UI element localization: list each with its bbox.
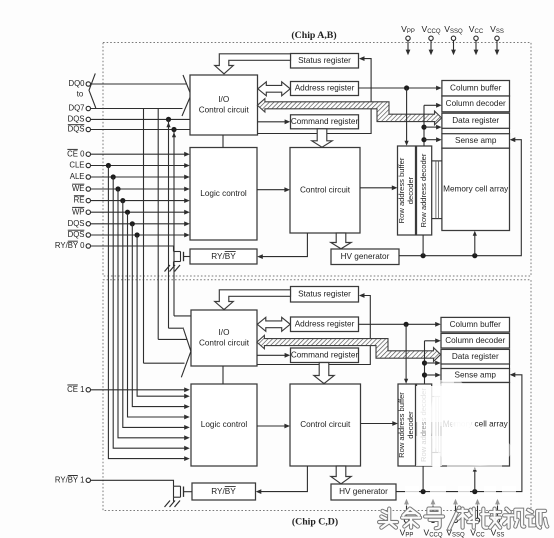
junction data register feed (C,D) xyxy=(422,360,427,365)
block Memory cell array (A,B) xyxy=(442,148,510,230)
block Control circuit (C,D) xyxy=(290,384,361,466)
wire I/O to Logic control (A,B) xyxy=(222,135,224,148)
wire to sense amp (A,B) xyxy=(424,139,439,141)
status ribbon to I/O top (C,D) xyxy=(215,290,291,310)
wire to memory array bottom (C,D) xyxy=(474,468,476,492)
block Status register (C,D) xyxy=(291,287,359,303)
wire Logic control to Control circuit (C,D) xyxy=(257,425,288,427)
svg-text:DQ0: DQ0 xyxy=(68,79,85,88)
block Control circuit (A,B) xyxy=(290,148,360,234)
block Sense amp (C,D) xyxy=(441,369,510,383)
command to control hollow arrow (C,D) xyxy=(314,363,334,384)
status feedback wire (A,B) xyxy=(258,59,372,134)
RY/BY transistor (C,D) xyxy=(174,485,181,487)
wire control drop x=122.8 to Logic control (C,D) xyxy=(123,201,188,428)
svg-text:RY/BY 1: RY/BY 1 xyxy=(55,475,85,484)
svg-text:Status register: Status register xyxy=(298,289,351,298)
ground slashes (A,B) xyxy=(165,265,171,272)
svg-text:decoder: decoder xyxy=(406,411,415,439)
svg-text:Address register: Address register xyxy=(295,84,355,93)
wire WP to Logic control (A,B) xyxy=(91,211,188,213)
wire address to row address buffer (C,D) xyxy=(405,324,407,381)
wire to row decoder bottom (A,B) xyxy=(422,235,424,256)
block Row address decoder (C,D) xyxy=(417,384,432,466)
wire DQS-bar drop to chip C,D xyxy=(173,130,175,316)
wire DQS to Logic control (A,B) xyxy=(91,223,188,225)
svg-text:DQS: DQS xyxy=(68,125,85,134)
svg-text:decoder: decoder xyxy=(406,176,415,204)
svg-text:Status register: Status register xyxy=(298,56,351,65)
HV hollow arrow (C,D) xyxy=(331,466,351,484)
wire Control circuit to RY/BY (C,D) xyxy=(258,466,307,492)
svg-text:Column buffer: Column buffer xyxy=(450,320,502,329)
svg-text:Control circuit: Control circuit xyxy=(199,338,250,347)
block Column buffer (A,B) xyxy=(442,81,510,97)
wire to data register (C,D) xyxy=(425,362,439,364)
svg-text:ALE: ALE xyxy=(70,172,85,181)
chip A,B dashed boundary xyxy=(103,43,531,277)
junction HV-rowdec (C,D) xyxy=(421,489,426,494)
junction HV-array (C,D) xyxy=(472,489,477,494)
watermark white wash xyxy=(398,378,518,506)
wire Control circuit to RY/BY (A,B) xyxy=(260,233,308,257)
block Column decoder (A,B) xyxy=(442,96,510,112)
wire to sense amp (C,D) xyxy=(425,374,439,376)
wire RY/BY 0 xyxy=(91,245,174,247)
svg-text:RY/BY: RY/BY xyxy=(211,487,236,496)
wire control drop x=132.3 to Logic control (C,D) xyxy=(132,224,187,407)
svg-text:Control circuit: Control circuit xyxy=(199,105,250,114)
block Column buffer (C,D) xyxy=(441,317,510,332)
decoder-array ladder (A,B) xyxy=(432,160,442,162)
svg-text:CLE: CLE xyxy=(69,161,84,170)
svg-text:Row address decoder: Row address decoder xyxy=(419,153,428,227)
block Address register (A,B) xyxy=(291,82,359,96)
block Logic control (A,B) xyxy=(190,148,257,241)
junction RE xyxy=(120,198,125,203)
svg-text:WP: WP xyxy=(72,207,85,216)
junction ALE xyxy=(111,174,116,179)
junction sense amp feed (A,B) xyxy=(421,137,426,142)
wire Control circuit to Row address buffer (A,B) xyxy=(360,187,395,189)
block Command register (A,B) xyxy=(291,115,359,129)
status feedback wire (C,D) xyxy=(257,296,370,365)
svg-text:Control circuit: Control circuit xyxy=(300,420,351,429)
block Sense amp (A,B) xyxy=(442,134,510,149)
command feed wire (C,D) xyxy=(257,354,288,356)
wire CE 1 to Logic control (C,D) xyxy=(91,389,188,391)
ground slashes (C,D) xyxy=(165,501,171,508)
junction DQS-bar xyxy=(135,232,140,237)
junction DQS-bar xyxy=(171,127,176,132)
block Memory cell array (C,D) xyxy=(441,383,510,467)
svg-text:RE: RE xyxy=(74,196,85,205)
svg-text:Control circuit: Control circuit xyxy=(300,185,351,194)
svg-text:DQS: DQS xyxy=(68,114,85,123)
junction DQS xyxy=(130,221,135,226)
junction address-rowbuf (C,D) xyxy=(404,322,409,327)
column decoder feed wire (A,B) xyxy=(424,104,439,106)
block I/O Control circuit (A,B) xyxy=(190,75,258,135)
wire to memory array bottom (A,B) xyxy=(474,233,476,256)
bus chevron (C,D I/O) xyxy=(181,329,191,377)
block HV generator (A,B) xyxy=(331,249,399,265)
RY/BY transistor (A,B) xyxy=(173,246,175,252)
svg-text:DQ7: DQ7 xyxy=(68,104,84,113)
junction HV-array (A,B) xyxy=(472,253,477,258)
address double arrow (C,D) xyxy=(257,317,290,331)
wire CLE to Logic control (A,B) xyxy=(91,165,188,167)
wire RE to Logic control (A,B) xyxy=(91,200,188,202)
decoder-array ladder (C,D) xyxy=(432,396,441,398)
block HV generator (C,D) xyxy=(331,484,396,500)
command feed wire (A,B) xyxy=(258,121,288,123)
svg-text:Row address buffer: Row address buffer xyxy=(397,157,406,223)
wire ALE to Logic control (A,B) xyxy=(91,176,188,178)
wire DQS drop elbow xyxy=(169,327,185,329)
HV output wire (C,D) xyxy=(396,375,522,492)
wire control drop x=137.1 to Logic control (C,D) xyxy=(137,235,187,396)
wire DQS-bar drop elbow xyxy=(174,315,191,317)
wire DQS-bar to Logic control (A,B) xyxy=(91,234,188,236)
block Row address decoder (A,B) xyxy=(417,146,432,235)
block RY/BY (C,D) xyxy=(192,483,256,500)
wire to row decoder bottom (C,D) xyxy=(422,466,424,492)
wire CE 0 to Logic control (A,B) xyxy=(91,153,188,155)
svg-text:DQS: DQS xyxy=(68,230,85,239)
bus chevron left xyxy=(89,73,96,108)
block Data register (C,D) xyxy=(441,349,510,364)
svg-text:Logic control: Logic control xyxy=(201,420,248,429)
svg-text:Column decoder: Column decoder xyxy=(445,336,505,345)
chip C,D dashed boundary xyxy=(103,280,531,511)
wire address to row address buffer (A,B) xyxy=(406,88,408,144)
junction sense amp feed (C,D) xyxy=(422,372,427,377)
junction WE xyxy=(115,186,120,191)
wire Logic control to Control circuit (A,B) xyxy=(257,189,288,191)
svg-text:Data register: Data register xyxy=(452,352,499,361)
wire column/row decoder vertical (A,B) xyxy=(423,105,425,146)
svg-text:Memory cell array: Memory cell array xyxy=(443,185,509,194)
wire DQ bus drop 1 to chip C,D I/O xyxy=(144,362,185,364)
address register output wire (C,D) xyxy=(359,323,439,325)
hatched data bus (A,B) xyxy=(257,99,441,125)
svg-text:Data register: Data register xyxy=(452,116,499,125)
svg-text:I/O: I/O xyxy=(219,328,230,337)
wire control drop x=127.5 to Logic control (C,D) xyxy=(128,212,188,417)
svg-text:Command register: Command register xyxy=(291,350,359,359)
status ribbon to I/O top (A,B) xyxy=(215,54,291,74)
svg-text:HV generator: HV generator xyxy=(339,487,388,496)
wire DQ bus drop 1 xyxy=(143,109,145,364)
column decoder feed wire (C,D) xyxy=(425,340,439,342)
junction address-rowbuf (A,B) xyxy=(404,85,409,90)
svg-text:Sense amp: Sense amp xyxy=(455,136,497,145)
wire DQ0 bus line xyxy=(91,83,187,85)
svg-text:CE 1: CE 1 xyxy=(67,385,84,394)
bus chevron right (into I/O) xyxy=(182,75,191,116)
block Address register (C,D) xyxy=(291,317,359,332)
watermark text 头条号/科技视讯 xyxy=(379,509,397,528)
wire control drop x=108.4 to Logic control (C,D) xyxy=(108,166,187,459)
svg-text:(Chip C,D): (Chip C,D) xyxy=(292,517,338,528)
wire DQ7 line xyxy=(91,108,183,110)
command to control hollow arrow (A,B) xyxy=(312,129,332,147)
wire DQ bus drop 2 to chip C,D I/O xyxy=(158,338,187,340)
block I/O Control circuit (C,D) xyxy=(191,310,257,366)
block Row address buffer decoder (A,B) xyxy=(398,146,416,235)
svg-text:CE 0: CE 0 xyxy=(67,149,85,158)
block Data register (A,B) xyxy=(442,113,510,128)
hatched data bus (C,D) xyxy=(257,335,441,361)
wire to data register (A,B) xyxy=(424,126,439,128)
address register output wire (A,B) xyxy=(359,87,440,89)
svg-text:to: to xyxy=(77,89,84,98)
block Row address buffer decoder (C,D) xyxy=(398,384,416,466)
svg-text:WE: WE xyxy=(72,184,85,193)
wire register column side joins (C,D) xyxy=(440,364,442,369)
wire WE to Logic control (A,B) xyxy=(91,188,188,190)
block RY/BY (A,B) xyxy=(190,249,257,264)
wire control drop x=118.0 to Logic control (C,D) xyxy=(118,189,188,438)
wire I/O to Logic control (C,D) xyxy=(222,366,224,384)
HV output wire (A,B) xyxy=(399,140,521,256)
block Status register (A,B) xyxy=(291,54,359,69)
wire DQS-bar (top pair) xyxy=(91,129,191,131)
svg-text:RY/BY: RY/BY xyxy=(211,252,236,261)
svg-text:Row address buffer: Row address buffer xyxy=(397,392,406,458)
svg-text:Column decoder: Column decoder xyxy=(446,99,506,108)
svg-text:RY/BY 0: RY/BY 0 xyxy=(55,241,85,250)
wire DQ bus drop 2 xyxy=(157,109,159,340)
svg-text:(Chip A,B): (Chip A,B) xyxy=(291,30,336,41)
svg-text:Address register: Address register xyxy=(295,319,355,328)
block Column decoder (C,D) xyxy=(441,333,510,348)
svg-text:DQS: DQS xyxy=(68,219,85,228)
wire Control circuit to Row address buffer (C,D) xyxy=(361,423,396,425)
address double arrow (A,B) xyxy=(258,82,290,96)
wire DQS drop to chip C,D xyxy=(168,119,170,328)
svg-text:I/O: I/O xyxy=(218,95,229,104)
svg-text:Sense amp: Sense amp xyxy=(455,371,497,380)
svg-text:Column buffer: Column buffer xyxy=(450,83,502,92)
svg-text:HV generator: HV generator xyxy=(341,252,390,261)
junction DQS xyxy=(166,117,171,122)
junction HV-rowdec (A,B) xyxy=(421,253,426,258)
block Command register (C,D) xyxy=(291,348,359,363)
block Logic control (C,D) xyxy=(191,384,257,466)
wire register column side joins (A,B) xyxy=(441,128,443,133)
wire DQS (top pair) xyxy=(91,118,191,120)
HV hollow arrow (A,B) xyxy=(331,233,351,249)
junction CLE xyxy=(106,163,111,168)
junction data register feed (A,B) xyxy=(421,125,426,130)
wire column/row decoder vertical (C,D) xyxy=(424,341,426,384)
wire control drop x=113.2 to Logic control (C,D) xyxy=(113,177,187,448)
svg-text:Logic control: Logic control xyxy=(200,189,247,198)
wire RY/BY 1 xyxy=(91,480,174,486)
junction WP xyxy=(125,210,130,215)
svg-text:Command register: Command register xyxy=(291,117,359,126)
